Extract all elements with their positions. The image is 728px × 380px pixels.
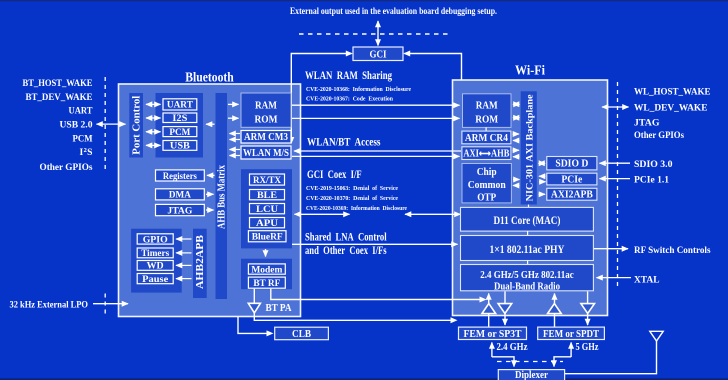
svg-text:Bluetooth: Bluetooth bbox=[185, 70, 234, 85]
svg-text:CVE-2020-10368: Information: CVE-2020-10368: Information Disclosure bbox=[306, 86, 411, 93]
wire: NIC to ChipCommon left bbox=[513, 185, 520, 187]
svg-text:RF Switch Controls: RF Switch Controls bbox=[634, 245, 711, 256]
wire: FEM SP3T elbow down to diplexer bbox=[492, 357, 514, 367]
WLAN M/S box bbox=[241, 146, 291, 159]
svg-text:LCU: LCU bbox=[256, 204, 278, 215]
BT RF box bbox=[248, 277, 285, 289]
svg-text:WLAN M/S: WLAN M/S bbox=[243, 148, 289, 159]
Wi-Fi block bbox=[453, 80, 608, 316]
svg-text:WL_HOST_WAKE: WL_HOST_WAKE bbox=[634, 87, 711, 98]
USB box bbox=[163, 141, 197, 152]
SDIO D box bbox=[547, 157, 597, 170]
WLAN RAM/ROM box bbox=[463, 94, 512, 128]
AHB Bus Matrix bar bbox=[216, 93, 228, 299]
Diplexer box bbox=[498, 370, 564, 380]
Registers box bbox=[156, 170, 205, 182]
wire: PortControl-PCM bbox=[146, 131, 161, 133]
svg-text:Wi-Fi: Wi-Fi bbox=[515, 63, 545, 78]
svg-text:Pause: Pause bbox=[142, 274, 169, 285]
svg-text:ARM CM3: ARM CM3 bbox=[244, 132, 288, 143]
svg-text:PCIe 1.1: PCIe 1.1 bbox=[634, 175, 669, 186]
wire: NIC to AXI2APB bbox=[539, 193, 546, 195]
svg-text:CVE-2020-10369: Information: CVE-2020-10369: Information Disclosure bbox=[306, 205, 407, 212]
wire: WLAN RAM to NIC bbox=[513, 103, 520, 105]
AXI2APB box bbox=[547, 188, 597, 200]
wire: GCI left to WLAN M/S bbox=[291, 54, 351, 142]
svg-text:ROM: ROM bbox=[475, 114, 499, 126]
svg-text:PCM: PCM bbox=[73, 133, 93, 144]
wire: NIC to SDIO D bbox=[539, 162, 546, 164]
wire: AHB2APB to Timers bbox=[176, 252, 192, 254]
wire: shared LNA line to PHY bbox=[292, 243, 458, 245]
wire: WLAN ROM to NIC bbox=[513, 117, 520, 119]
svg-text:SDIO D: SDIO D bbox=[555, 159, 588, 170]
svg-text:AXI2APB: AXI2APB bbox=[551, 190, 593, 201]
CLB box bbox=[275, 327, 329, 340]
ARM CR4 box bbox=[462, 131, 511, 144]
wire: CR4 to NIC right bbox=[513, 133, 520, 135]
svg-text:Registers: Registers bbox=[163, 171, 197, 182]
WD box bbox=[137, 261, 173, 272]
PCM box bbox=[163, 127, 197, 138]
wire: GCI to caption double arrow bbox=[377, 21, 379, 46]
svg-text:CVE-2020-10367: Code Executi: CVE-2020-10367: Code Execution bbox=[306, 96, 393, 103]
wire: diplexer up to FEM or SP3T bbox=[491, 343, 493, 358]
svg-text:XTAL: XTAL bbox=[634, 274, 660, 285]
wire: AXI-AHB to NIC right bbox=[513, 149, 520, 151]
dashed boundary line top bbox=[299, 33, 452, 35]
Port Control bar bbox=[129, 93, 143, 158]
wire: AHB bus to UART container bbox=[206, 123, 215, 125]
svg-text:RX/TX: RX/TX bbox=[253, 175, 281, 186]
svg-text:and Other Coex I/Fs: and Other Coex I/Fs bbox=[305, 245, 387, 257]
svg-text:Chip: Chip bbox=[477, 167, 497, 178]
svg-text:AHB Bus Matrix: AHB Bus Matrix bbox=[216, 165, 227, 229]
svg-text:WD: WD bbox=[147, 261, 164, 272]
AXI-AHB box bbox=[462, 147, 511, 160]
dashed line above diplexer bbox=[497, 361, 563, 363]
svg-text:FEM or SPDT: FEM or SPDT bbox=[543, 329, 599, 340]
wire: NIC to AXI-AHB left bbox=[513, 156, 520, 158]
wire: NIC to PCIe lower bbox=[539, 181, 546, 183]
wire: bus to BT ROM bbox=[228, 117, 239, 119]
svg-text:AXI⟷AHB: AXI⟷AHB bbox=[463, 149, 509, 160]
Chip Common box bbox=[462, 164, 511, 204]
svg-text:UART: UART bbox=[167, 100, 193, 111]
Pause box bbox=[137, 274, 173, 285]
svg-text:UART: UART bbox=[69, 106, 94, 117]
wire: 2.4GHz TX to FEM bbox=[504, 292, 506, 326]
PCIe box bbox=[547, 173, 597, 185]
wire: bus to Registers bbox=[207, 174, 215, 176]
svg-text:1×1 802.11ac PHY: 1×1 802.11ac PHY bbox=[489, 243, 565, 256]
svg-text:5 GHz: 5 GHz bbox=[576, 342, 599, 353]
svg-text:BT_DEV_WAKE: BT_DEV_WAKE bbox=[26, 92, 93, 103]
svg-text:SDIO 3.0: SDIO 3.0 bbox=[634, 159, 673, 170]
Modem box bbox=[248, 264, 285, 276]
wire: BT ROM to WLAN ROM bbox=[292, 117, 460, 119]
wire: PHY to Radio tick bbox=[527, 261, 529, 265]
svg-text:Shared LNA Control: Shared LNA Control bbox=[305, 232, 387, 244]
UART box bbox=[163, 99, 197, 111]
wire: D11 to PHY tick bbox=[527, 231, 529, 235]
wire: NIC to D11 tick bbox=[528, 205, 530, 208]
1x1 802.11ac PHY box bbox=[461, 236, 594, 261]
svg-text:2.4 GHz: 2.4 GHz bbox=[497, 342, 528, 353]
wire: AHB2APB to Pause bbox=[176, 278, 192, 280]
svg-text:32 kHz External LPO: 32 kHz External LPO bbox=[10, 300, 89, 311]
Dual-Band Radio box bbox=[461, 265, 594, 293]
svg-text:USB: USB bbox=[170, 141, 190, 152]
svg-text:ARM CR4: ARM CR4 bbox=[465, 133, 508, 144]
wire: GCI coex arrow BT side bbox=[295, 213, 350, 215]
svg-text:Timers: Timers bbox=[141, 248, 169, 259]
wire: PortControl-USB bbox=[146, 144, 161, 146]
svg-text:ROM: ROM bbox=[255, 114, 279, 126]
svg-text:RAM: RAM bbox=[476, 100, 499, 112]
BT PA amplifier triangle bbox=[248, 303, 260, 313]
svg-text:JTAG: JTAG bbox=[634, 117, 660, 128]
wire: 2.4GHz RX into radio bbox=[488, 294, 490, 328]
PA triangle 2.4GHz bbox=[498, 304, 512, 314]
FEM or SP3T box bbox=[459, 327, 527, 340]
wire: JTAG to bus bbox=[206, 209, 214, 211]
svg-text:BLE: BLE bbox=[257, 190, 277, 201]
wire: 5GHz RX into radio bbox=[554, 294, 556, 328]
svg-text:WLAN/BT Access: WLAN/BT Access bbox=[307, 137, 381, 149]
svg-text:OTP: OTP bbox=[477, 192, 496, 203]
svg-text:External output used in the ev: External output used in the evaluation b… bbox=[290, 6, 497, 16]
GPIO box bbox=[137, 234, 173, 246]
svg-text:Modem: Modem bbox=[251, 264, 282, 275]
svg-text:APU: APU bbox=[256, 218, 278, 229]
NIC-301 AXI Backplane bar bbox=[521, 91, 537, 204]
svg-text:BT_HOST_WAKE: BT_HOST_WAKE bbox=[23, 78, 93, 89]
JTAG box bbox=[156, 204, 205, 216]
LNA triangle 5GHz bbox=[548, 304, 562, 314]
wire: access line into AXI-AHB bbox=[292, 155, 460, 157]
I2S box bbox=[163, 113, 197, 124]
Modem group container bbox=[241, 259, 292, 290]
wire: BT RAM to WLAN RAM bbox=[292, 104, 460, 106]
svg-text:Common: Common bbox=[468, 180, 506, 191]
svg-text:CVE-2019-15063: Denial of S: CVE-2019-15063: Denial of Service bbox=[306, 185, 398, 192]
wire: diplexer up to FEM or SPDT bbox=[570, 343, 572, 358]
wire: PortControl-I2S bbox=[146, 117, 161, 119]
wire: WL wake double arrow bbox=[602, 106, 629, 108]
AHB2APB bar bbox=[193, 229, 207, 298]
DMA box bbox=[156, 189, 205, 201]
svg-text:BT PA: BT PA bbox=[266, 303, 292, 314]
svg-text:PCIe: PCIe bbox=[561, 175, 582, 186]
svg-text:JTAG: JTAG bbox=[167, 205, 192, 216]
svg-text:CLB: CLB bbox=[292, 329, 311, 340]
wire: PortControl-UART bbox=[146, 103, 161, 105]
APU box bbox=[250, 218, 285, 230]
RX/TX box bbox=[250, 174, 285, 186]
wire: FEM SPDT elbow down to diplexer bbox=[554, 357, 571, 367]
wire: XTAL into radio bbox=[597, 277, 632, 279]
wire: AHB2APB to GPIO bbox=[176, 238, 192, 240]
dashed chip boundary left upper bbox=[104, 77, 106, 172]
Timers box bbox=[137, 248, 173, 259]
svg-text:NIC-301 AXI Backplane: NIC-301 AXI Backplane bbox=[525, 94, 536, 202]
Bluetooth block bbox=[119, 84, 301, 317]
wire: PCIe 1.1 into PCIe bbox=[600, 178, 631, 180]
GPIO group container bbox=[131, 229, 182, 293]
wire: ARM CM3 to bus lower bbox=[230, 139, 241, 141]
LCU box bbox=[250, 204, 285, 216]
wire: 5GHz TX to FEM bbox=[587, 292, 589, 326]
svg-text:WL_DEV_WAKE: WL_DEV_WAKE bbox=[634, 103, 708, 114]
wire: BT block to CLB bbox=[238, 317, 271, 333]
wire: ARM CM3 to bus upper bbox=[230, 133, 241, 135]
wire: AHB2APB to WD bbox=[176, 264, 192, 266]
svg-text:CVE-2020-10370: Denial of S: CVE-2020-10370: Denial of Service bbox=[306, 195, 398, 202]
wire: DMA to bus bbox=[206, 193, 214, 195]
wire: PHY to RF switch controls bbox=[594, 248, 628, 250]
wire: GCI coex arrow WiFi side bbox=[405, 213, 461, 215]
LNA triangle 2.4GHz bbox=[482, 304, 496, 314]
wire: bus to BT RAM bbox=[228, 103, 239, 105]
svg-text:Other GPIOs: Other GPIOs bbox=[40, 162, 93, 173]
wire: diplexer to antenna bbox=[565, 341, 657, 374]
wire: BT RF right output to 2.4GHz RX line bbox=[271, 289, 484, 300]
top black border strip bbox=[0, 0, 728, 1]
GCI box bbox=[353, 47, 403, 61]
wire: LPO into BT block bbox=[93, 303, 128, 305]
svg-text:USB 2.0: USB 2.0 bbox=[60, 120, 93, 131]
svg-text:I2S: I2S bbox=[172, 113, 188, 124]
dashed chip boundary right bbox=[617, 82, 619, 290]
bottom black border strip bbox=[0, 378, 728, 380]
svg-text:BlueRF: BlueRF bbox=[252, 232, 283, 243]
wire: USB 2.0 double arrow bbox=[97, 123, 126, 125]
wire: WLAN M/S to bus lower bbox=[230, 155, 241, 157]
svg-text:GPIO: GPIO bbox=[143, 234, 168, 245]
svg-text:Dual-Band Radio: Dual-Band Radio bbox=[494, 282, 560, 293]
wire: BT RF to BT PA bbox=[253, 289, 255, 304]
svg-text:BT RF: BT RF bbox=[253, 278, 280, 289]
svg-text:PCM: PCM bbox=[169, 127, 190, 138]
D11 Core MAC box bbox=[461, 207, 594, 231]
wire: access line into WLAN M/S bbox=[294, 150, 461, 152]
wire: ROM to ARM CR4 tick bbox=[485, 127, 487, 131]
antenna bbox=[650, 331, 663, 341]
dashed chip boundary left lower bbox=[104, 294, 106, 315]
svg-text:GCI Coex I/F: GCI Coex I/F bbox=[307, 169, 362, 181]
wire: RX/TX group to Modem group bbox=[265, 249, 267, 257]
svg-text:Other GPIOs: Other GPIOs bbox=[634, 130, 684, 141]
svg-text:Diplexer: Diplexer bbox=[515, 370, 548, 380]
wire: NIC to CR4 left bbox=[513, 140, 520, 142]
svg-text:D11 Core (MAC): D11 Core (MAC) bbox=[493, 214, 560, 227]
svg-text:AHB2APB: AHB2APB bbox=[195, 235, 206, 289]
wire: BT PA to FEM or SP3T bbox=[254, 313, 455, 321]
svg-text:DMA: DMA bbox=[169, 190, 191, 201]
wire: ChipCommon to NIC right bbox=[513, 179, 520, 181]
PA triangle 5GHz bbox=[581, 304, 595, 314]
wire: SDIO 3.0 into SDIO D bbox=[600, 162, 631, 164]
svg-text:RAM: RAM bbox=[255, 99, 278, 111]
RX/TX group container bbox=[241, 169, 292, 248]
wire: PCIe to NIC upper bbox=[539, 175, 546, 177]
wire: GCI right to Wi-Fi block bbox=[405, 54, 462, 81]
BlueRF box bbox=[248, 231, 286, 243]
UART group container bbox=[156, 93, 204, 158]
svg-text:Port Control: Port Control bbox=[132, 95, 143, 154]
BT RAM/ROM box bbox=[241, 93, 291, 127]
svg-text:WLAN RAM Sharing: WLAN RAM Sharing bbox=[305, 70, 392, 82]
FEM or SPDT box bbox=[538, 327, 605, 340]
BLE box bbox=[250, 190, 285, 202]
ARM CM3 box bbox=[241, 131, 291, 144]
svg-text:2.4 GHz/5 GHz 802.11ac: 2.4 GHz/5 GHz 802.11ac bbox=[480, 270, 574, 281]
svg-text:FEM or SP3T: FEM or SP3T bbox=[464, 329, 522, 340]
svg-text:GCI: GCI bbox=[370, 49, 387, 60]
wire: WLAN M/S to bus upper bbox=[230, 149, 241, 151]
